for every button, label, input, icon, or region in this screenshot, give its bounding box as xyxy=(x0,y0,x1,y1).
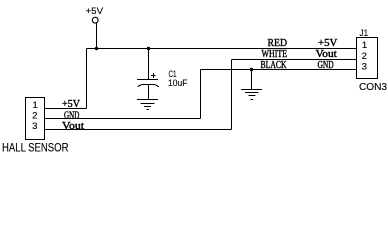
wire vertical from +5V rail down to hall pin 1 xyxy=(86,49,88,109)
wire vertical Vout riser xyxy=(231,60,233,130)
power port +5V xyxy=(96,23,98,49)
junction at C1 tap xyxy=(147,47,150,50)
svg-text:RED: RED xyxy=(268,38,288,49)
svg-text:HALL SENSOR: HALL SENSOR xyxy=(2,143,69,155)
svg-text:Vout: Vout xyxy=(316,49,338,60)
wire vertical GND riser xyxy=(200,70,202,119)
hall sensor box xyxy=(26,98,45,140)
ground lead on GND net xyxy=(251,70,253,90)
svg-text:+5V: +5V xyxy=(86,6,105,16)
connector J1 box xyxy=(357,38,378,79)
wire BLACK/GND into connector pin 3 xyxy=(201,69,357,71)
svg-text:3: 3 xyxy=(32,121,37,132)
wire hall pin 2 GND run xyxy=(45,118,201,120)
svg-text:GND: GND xyxy=(318,60,334,71)
svg-text:3: 3 xyxy=(362,61,367,72)
capacitor C1 top plate xyxy=(137,79,158,81)
svg-text:+5V: +5V xyxy=(318,38,338,49)
svg-text:+5V: +5V xyxy=(62,99,81,110)
ground on GND net xyxy=(241,90,262,100)
svg-text:J1: J1 xyxy=(360,28,369,38)
svg-text:WHITE: WHITE xyxy=(262,49,288,60)
svg-text:GND: GND xyxy=(64,110,79,121)
junction at ground tap xyxy=(250,68,253,71)
svg-text:2: 2 xyxy=(32,111,37,122)
wire hall pin 3 Vout run xyxy=(45,129,232,131)
capacitor C1 curved plate xyxy=(138,85,159,87)
capacitor C1 top lead xyxy=(148,49,150,80)
junction at +5V stem xyxy=(95,47,98,50)
capacitor C1 plus sign xyxy=(151,73,156,78)
wire WHITE/Vout into connector pin 2 xyxy=(232,59,357,61)
svg-text:CON3: CON3 xyxy=(359,82,387,93)
ground under C1 xyxy=(137,100,158,110)
wire +5V top rail xyxy=(87,48,357,50)
svg-text:Vout: Vout xyxy=(62,121,84,132)
wire hall pin 1 stub xyxy=(45,108,87,110)
svg-text:1: 1 xyxy=(362,40,367,51)
svg-text:BLACK: BLACK xyxy=(261,60,288,71)
svg-text:1: 1 xyxy=(33,100,38,111)
capacitor C1 bottom lead xyxy=(148,85,150,100)
power port circle xyxy=(92,17,98,23)
svg-text:10uF: 10uF xyxy=(168,78,188,88)
